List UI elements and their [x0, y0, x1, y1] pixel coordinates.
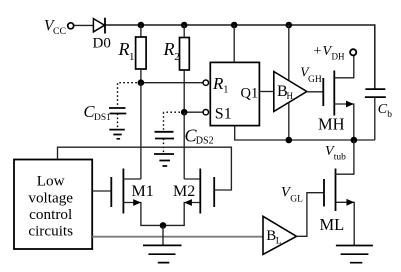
arrow M1 source — [133, 199, 141, 206]
buffer BL — [263, 216, 297, 254]
svg-text:L: L — [276, 236, 282, 246]
svg-text:S1: S1 — [215, 106, 232, 123]
wire MH source to Vtub rail — [334, 104, 354, 140]
node VCC terminal circle — [68, 23, 74, 29]
node dot MH source/Vtub — [351, 137, 358, 144]
svg-text:2: 2 — [174, 51, 180, 63]
node dot rail/BH — [286, 22, 293, 29]
svg-text:control: control — [29, 206, 72, 223]
transistor ML — [323, 179, 325, 207]
svg-text:DS2: DS2 — [196, 136, 214, 147]
wire ML source to ground — [336, 202, 355, 245]
ground under M1/M2 — [143, 245, 182, 262]
svg-text:C: C — [378, 102, 388, 117]
capacitor CDS2 dotted link — [164, 112, 185, 131]
capacitor CDS1 dotted link to ground — [117, 114, 119, 130]
transistor M1 — [110, 177, 112, 207]
svg-text:GH: GH — [308, 75, 322, 85]
svg-text:ML: ML — [320, 215, 345, 234]
node dot B (R2 / latch S / M2 drain) — [181, 109, 188, 116]
wire latch Q1 to BH input — [259, 91, 273, 93]
transistor M2 — [213, 177, 215, 207]
svg-text:M2: M2 — [173, 183, 195, 200]
svg-text:GL: GL — [290, 195, 303, 205]
capacitor Cb plates — [365, 89, 386, 97]
svg-text:voltage: voltage — [28, 189, 73, 206]
wire node A to latch R input — [141, 82, 203, 84]
wire box to BL input — [92, 236, 263, 238]
svg-text:H: H — [287, 91, 294, 101]
wire BH bottom to Vtub rail — [288, 103, 290, 141]
wire R1 bottom to node A — [140, 69, 142, 83]
arrow MH source — [346, 101, 354, 108]
ground under ML — [336, 246, 373, 263]
arrow M2 source — [184, 199, 192, 206]
wire BL out to ML gate — [297, 193, 325, 237]
resistor R2 — [180, 38, 190, 71]
node dot rail/R1 — [138, 22, 145, 29]
wire M2 drain tap — [184, 178, 200, 180]
svg-text:+: + — [314, 44, 322, 59]
svg-text:Q1: Q1 — [241, 86, 259, 102]
svg-text:MH: MH — [318, 115, 345, 134]
arrow ML source — [347, 199, 355, 206]
svg-text:tub: tub — [334, 153, 346, 163]
wire M2 source to common node — [163, 203, 200, 226]
node dot M1/M2 common source — [160, 222, 167, 229]
wire node B to latch S input — [184, 111, 203, 113]
wire Vtub rail down to ML drain — [336, 140, 354, 174]
wire R2 bottom to node B — [183, 70, 185, 112]
ground under CDS1 — [109, 130, 125, 139]
svg-text:1: 1 — [129, 51, 135, 63]
svg-text:b: b — [387, 110, 392, 120]
transistor MH — [322, 78, 324, 106]
svg-text:D0: D0 — [93, 36, 111, 52]
wire Cb bottom to Vtub rail — [374, 97, 376, 140]
wire box top to M2 gate — [58, 147, 232, 190]
node dot rail/R2 — [181, 22, 188, 29]
wire R2 top — [183, 25, 185, 38]
svg-text:1: 1 — [223, 84, 228, 95]
capacitor CDS1 dotted link — [118, 83, 141, 108]
resistor R1 — [136, 37, 147, 69]
wire M1 drain tap — [123, 178, 140, 180]
svg-text:M1: M1 — [132, 183, 154, 200]
svg-text:circuits: circuits — [28, 222, 73, 239]
node dot A (R1 / latch R / M1 drain) — [138, 79, 145, 86]
svg-text:R: R — [212, 74, 224, 93]
buffer BH — [274, 72, 307, 112]
capacitor CDS2 plates — [155, 132, 175, 139]
capacitor CDS1 plates — [109, 108, 126, 114]
wire VCC to diode — [74, 24, 93, 26]
wire latch top to rail — [233, 25, 235, 62]
wire node B down to M2 drain — [183, 112, 185, 179]
capacitor CDS2 dotted link to ground — [163, 139, 165, 154]
svg-text:DH: DH — [332, 52, 345, 62]
wire box to M1 gate — [92, 190, 111, 192]
wire top rail and right rail down to Cb — [106, 25, 375, 89]
wire R1 top — [140, 25, 142, 37]
wire rail down to BH top — [288, 25, 290, 81]
svg-text:Low: Low — [37, 173, 65, 190]
svg-text:CC: CC — [53, 26, 66, 37]
wire MH drain to VDH — [334, 56, 354, 78]
wire M1 source to common node — [123, 203, 163, 226]
svg-text:R: R — [118, 39, 130, 59]
wire common source to ground — [162, 225, 164, 245]
latch U1 box — [210, 62, 259, 125]
svg-text:R: R — [163, 39, 175, 59]
node +VDH terminal circle — [350, 49, 356, 55]
wire latch bottom to Vtub rail — [235, 126, 375, 140]
box low voltage control circuits — [14, 160, 92, 250]
pin S1 bubble — [203, 110, 208, 115]
svg-text:DS1: DS1 — [94, 113, 111, 123]
wire node A down to M1 drain — [140, 83, 142, 179]
wire BH out to MH gate — [307, 91, 324, 93]
node dot BH/Vtub — [286, 137, 293, 144]
node dot rail/latch — [231, 22, 238, 29]
diode D0 — [93, 19, 104, 32]
ground under CDS2 — [154, 154, 174, 166]
pin R1 bubble — [203, 80, 208, 85]
